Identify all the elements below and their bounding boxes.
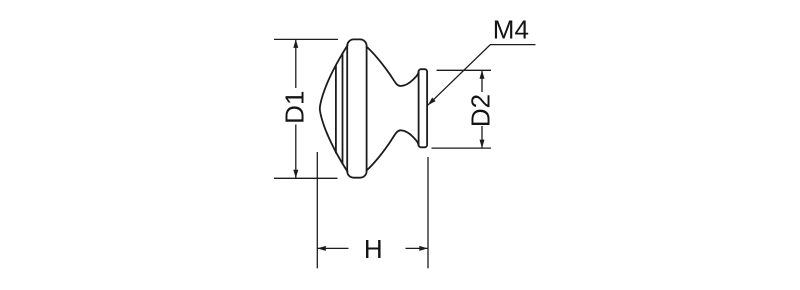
svg-text:D1: D1 — [280, 91, 310, 124]
svg-text:M4: M4 — [493, 15, 529, 45]
svg-text:H: H — [364, 234, 383, 264]
svg-text:D2: D2 — [466, 94, 496, 127]
